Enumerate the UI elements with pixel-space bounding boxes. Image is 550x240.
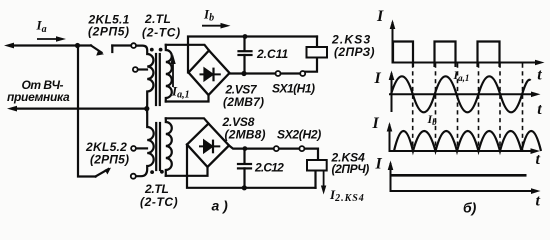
svg-text:I: I <box>376 8 384 25</box>
svg-text:(2ПРЗ): (2ПРЗ) <box>334 45 375 59</box>
svg-text:I: I <box>374 70 382 87</box>
svg-text:SX1(Н1): SX1(Н1) <box>272 82 315 96</box>
svg-text:2.C12: 2.C12 <box>254 161 284 175</box>
svg-text:t: t <box>537 101 542 118</box>
svg-text:t: t <box>536 193 541 210</box>
svg-text:SX2(Н2): SX2(Н2) <box>277 128 321 142</box>
svg-text:(2-ТС): (2-ТС) <box>142 26 181 40</box>
svg-text:t: t <box>537 67 542 84</box>
svg-text:2.C11: 2.C11 <box>256 47 288 61</box>
svg-text:I: I <box>372 115 380 132</box>
svg-text:а ): а ) <box>212 198 229 214</box>
svg-text:I: I <box>375 155 383 172</box>
svg-text:(2МВ7): (2МВ7) <box>223 95 264 109</box>
svg-text:(2МВ8): (2МВ8) <box>225 127 266 141</box>
svg-text:(2-ТС): (2-ТС) <box>140 195 178 209</box>
svg-text:(2РП5): (2РП5) <box>88 24 130 38</box>
svg-text:приемника: приемника <box>7 90 70 104</box>
svg-text:t: t <box>536 151 541 168</box>
svg-text:(2РП5): (2РП5) <box>90 152 129 166</box>
svg-text:б): б) <box>463 200 477 216</box>
svg-text:2.TL: 2.TL <box>144 12 171 26</box>
svg-text:(2ПРЧ): (2ПРЧ) <box>332 162 370 176</box>
svg-text:2.TL: 2.TL <box>144 182 168 196</box>
